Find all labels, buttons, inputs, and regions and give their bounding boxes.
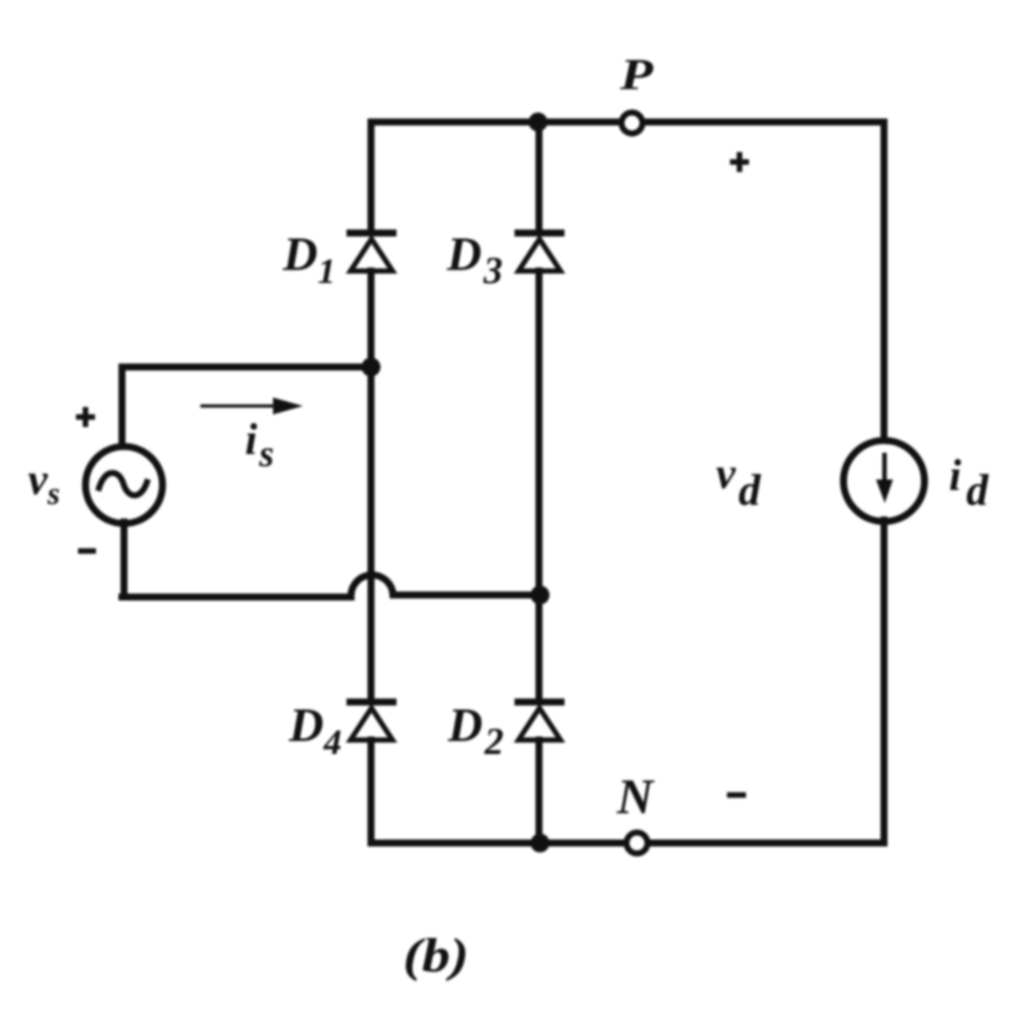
node junction dot top: [529, 113, 548, 132]
node junction dot bottom: [531, 834, 550, 853]
svg-text:D1: D1: [282, 228, 336, 291]
node junction dot B: [531, 586, 550, 605]
svg-text:N: N: [616, 768, 655, 824]
wire right leg D2 to bottom bus: [536, 740, 543, 843]
plus sign vd: [730, 152, 749, 172]
diode D2: [518, 702, 561, 740]
wire right leg D3 to node B: [536, 271, 543, 595]
wire top bus P: [371, 119, 884, 126]
is arrow: [202, 398, 303, 415]
diode D1: [350, 233, 393, 271]
wire right side lower: [881, 520, 888, 843]
svg-text:D4: D4: [288, 699, 342, 762]
wire left leg D4 to bottom bus: [368, 740, 375, 843]
diode D4: [350, 702, 393, 740]
svg-text:P: P: [619, 50, 655, 99]
svg-text:(b): (b): [403, 929, 469, 982]
svg-text:D2: D2: [447, 699, 504, 763]
diode D3: [518, 233, 561, 271]
minus sign source: [78, 548, 96, 554]
wire bottom bus N: [371, 840, 884, 847]
svg-text:D3: D3: [446, 228, 503, 292]
wire right side upper: [881, 122, 888, 442]
ac source VS circle: [86, 447, 163, 524]
svg-text:vd: vd: [716, 449, 762, 515]
terminal N circle: [627, 833, 648, 854]
minus sign vd: [727, 792, 746, 798]
current source arrow: [876, 455, 893, 503]
wire right leg node B down to D2: [536, 595, 543, 700]
wire source plus lead: [119, 367, 126, 448]
plus sign source: [76, 407, 95, 427]
wire source bottom with hop: [122, 575, 540, 597]
current source ID circle: [844, 441, 925, 522]
terminal P circle: [622, 113, 643, 134]
wire right bridge leg upper: [536, 122, 543, 230]
svg-text:vs: vs: [28, 455, 60, 511]
wire left bridge leg upper: [368, 122, 375, 230]
svg-text:is: is: [245, 415, 274, 475]
wire left leg node A down to D4: [368, 367, 375, 700]
wire left leg D1 to node A: [368, 271, 375, 367]
ac source sine: [99, 473, 147, 496]
svg-text:id: id: [949, 451, 989, 515]
wire source top: [122, 364, 371, 371]
node junction dot A: [362, 358, 381, 377]
wire source minus lead: [121, 522, 128, 597]
